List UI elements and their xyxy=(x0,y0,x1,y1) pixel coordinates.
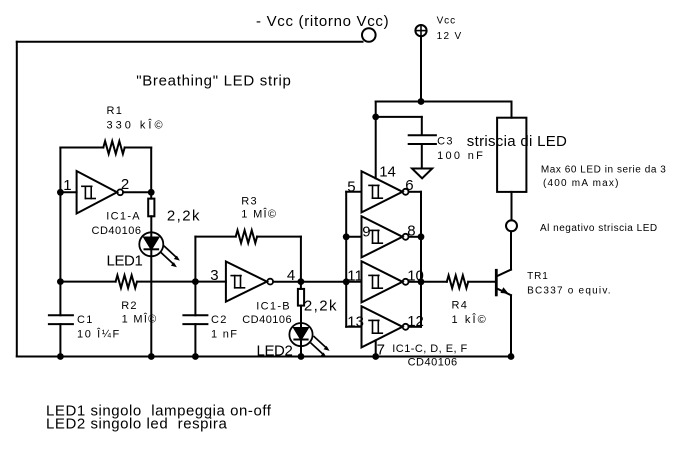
ground (arrow) under C3 xyxy=(412,169,432,179)
resistor R1 (zigzag) xyxy=(60,147,103,149)
wire: pin4 output to bank input bus xyxy=(273,281,346,283)
junction: output bus at pin 10 xyxy=(418,278,425,285)
wire: pin 7 to ground rail xyxy=(375,340,377,356)
LED1 xyxy=(139,232,163,256)
svg-text:CD40106: CD40106 xyxy=(242,314,292,326)
svg-text:12: 12 xyxy=(407,313,424,330)
junction: ground rail at pin 7 xyxy=(372,353,379,360)
svg-text:R4: R4 xyxy=(452,299,469,311)
svg-text:Vcc: Vcc xyxy=(437,16,456,27)
LED strip rectangle xyxy=(497,118,526,192)
svg-text:LED2 singolo led respira: LED2 singolo led respira xyxy=(46,416,227,433)
junction: ground rail at C1 xyxy=(57,353,64,360)
svg-text:330 kÎ©: 330 kÎ© xyxy=(107,119,166,132)
node: +Vcc terminal symbol xyxy=(415,25,426,36)
wire: emitter down to rail xyxy=(510,295,512,356)
resistor 2,2k (box) xyxy=(148,199,154,217)
LED2 arrows xyxy=(311,337,330,358)
wire: bottom ground rail xyxy=(17,356,511,358)
junction: input bus at pin 11 xyxy=(343,278,350,285)
capacitor C3 xyxy=(409,134,436,136)
junction: pin 1 node xyxy=(57,189,64,196)
svg-text:2,2k: 2,2k xyxy=(304,297,338,314)
svg-text:striscia di LED: striscia di LED xyxy=(467,133,567,150)
svg-text:IC1-C, D, E, F: IC1-C, D, E, F xyxy=(392,343,467,355)
LED1 arrows xyxy=(161,246,180,267)
svg-text:IC1-A: IC1-A xyxy=(106,210,141,222)
svg-text:1 MÎ©: 1 MÎ© xyxy=(241,208,277,221)
svg-text:11: 11 xyxy=(347,268,363,285)
svg-text:CD40106: CD40106 xyxy=(408,357,458,369)
svg-text:TR1: TR1 xyxy=(527,271,549,282)
svg-text:Al negativo striscia LED: Al negativo striscia LED xyxy=(540,223,658,234)
svg-text:LED1: LED1 xyxy=(107,253,143,270)
svg-text:4: 4 xyxy=(287,267,295,284)
junction: pin 2 node xyxy=(148,189,155,196)
wire: supply rail left drop to pin 14 xyxy=(375,102,377,179)
svg-text:5: 5 xyxy=(347,179,355,196)
junction: ground rail at LED2 xyxy=(298,353,305,360)
svg-text:1 nF: 1 nF xyxy=(211,329,238,341)
resistor R4 (zigzag) xyxy=(447,275,468,288)
svg-text:10 Î¼F: 10 Î¼F xyxy=(77,328,121,341)
wire: Vcc vertical drop xyxy=(420,36,422,101)
wire: output E to R4 xyxy=(421,281,447,283)
junction: C3 branch / pin 14 xyxy=(372,114,379,121)
junction: pin 4 node xyxy=(298,278,305,285)
wire: R1 left feedback vertical, continues to C1 and ground xyxy=(59,148,61,316)
svg-text:100 nF: 100 nF xyxy=(437,150,485,162)
capacitor C1 xyxy=(49,314,73,316)
svg-text:13: 13 xyxy=(347,314,364,331)
wire: top -Vcc horizontal xyxy=(17,41,363,43)
wire: mid rail left (C1 node to R2) xyxy=(60,281,115,283)
wire: collector up to LED strip circle xyxy=(510,231,512,269)
svg-text:C3: C3 xyxy=(437,136,454,148)
svg-text:1 MÎ©: 1 MÎ© xyxy=(122,312,158,325)
svg-text:C2: C2 xyxy=(211,314,228,326)
wire: C3 branch xyxy=(376,116,422,118)
svg-text:R3: R3 xyxy=(241,195,258,207)
resistor 2,2k #2 (box) xyxy=(298,289,304,306)
svg-text:14: 14 xyxy=(379,164,396,181)
svg-text:10: 10 xyxy=(407,268,424,285)
svg-text:1 kÎ©: 1 kÎ© xyxy=(452,313,488,326)
capacitor C2 xyxy=(183,314,207,316)
svg-text:9: 9 xyxy=(362,223,370,240)
op-amp U2: inverter IC1-B xyxy=(226,262,267,302)
hysteresis glyph IC1-B xyxy=(231,276,244,288)
wire: left frame vertical xyxy=(16,42,18,357)
junction: input bus at pin 9 xyxy=(343,233,350,240)
junction: ground rail at C2 xyxy=(192,353,199,360)
svg-text:8: 8 xyxy=(407,223,415,240)
junction: C2 / pin 3 node xyxy=(192,278,199,285)
svg-text:1: 1 xyxy=(63,177,71,194)
junction: output bus at pin 8 xyxy=(418,233,425,240)
svg-text:6: 6 xyxy=(405,177,413,194)
wire: top supply rail xyxy=(376,101,512,103)
op-amp U1: inverter IC1-A xyxy=(77,171,117,214)
junction: ground rail at LED1 xyxy=(148,353,155,360)
wire: pin1 input xyxy=(60,191,76,193)
svg-text:12 V: 12 V xyxy=(437,31,463,42)
junction: Vcc rail xyxy=(418,98,425,105)
svg-text:R2: R2 xyxy=(121,300,138,312)
inverter bank buses xyxy=(345,192,347,327)
svg-text:BC337 o equiv.: BC337 o equiv. xyxy=(527,285,612,296)
junction: C1 node xyxy=(57,278,64,285)
wire: R1 right feedback vertical xyxy=(150,148,152,199)
svg-text:2: 2 xyxy=(121,176,129,193)
LED2 xyxy=(289,323,312,346)
wire: strip bottom to circle xyxy=(511,192,513,220)
transistor Q1 TR1 xyxy=(496,270,511,296)
svg-text:Max 60 LED in serie da 3: Max 60 LED in serie da 3 xyxy=(541,165,666,176)
junction: ground rail at TR1 emitter xyxy=(508,353,515,360)
svg-text:- Vcc (ritorno Vcc): - Vcc (ritorno Vcc) xyxy=(256,13,389,30)
svg-text:R1: R1 xyxy=(107,105,124,117)
node: -Vcc terminal circle xyxy=(362,28,376,42)
svg-text:LED2: LED2 xyxy=(257,343,293,360)
op-amp: inverter IC1-D xyxy=(346,236,361,238)
svg-text:7: 7 xyxy=(377,342,385,359)
wire: pin2 output xyxy=(123,191,151,193)
wire: mid rail to pin 3 xyxy=(138,281,226,283)
node: LED strip negative circle xyxy=(506,220,517,231)
svg-text:CD40106: CD40106 xyxy=(92,225,142,237)
op-amp: inverter IC1-E xyxy=(346,281,361,283)
resistor R3 (zigzag) feedback xyxy=(195,236,235,238)
op-amp: inverter IC1-C xyxy=(346,191,361,193)
svg-text:2,2k: 2,2k xyxy=(167,207,201,224)
hysteresis glyph IC1-A xyxy=(82,186,95,198)
op-amp: inverter IC1-F xyxy=(346,326,361,328)
resistor R2 (zigzag) xyxy=(116,275,137,288)
svg-text:IC1-B: IC1-B xyxy=(256,301,291,313)
wire: supply rail right drop to LED strip xyxy=(511,102,513,118)
svg-text:C1: C1 xyxy=(77,314,94,326)
svg-text:(400 mA max): (400 mA max) xyxy=(543,178,620,189)
svg-text:"Breathing" LED strip: "Breathing" LED strip xyxy=(136,73,291,90)
svg-text:3: 3 xyxy=(210,267,218,284)
